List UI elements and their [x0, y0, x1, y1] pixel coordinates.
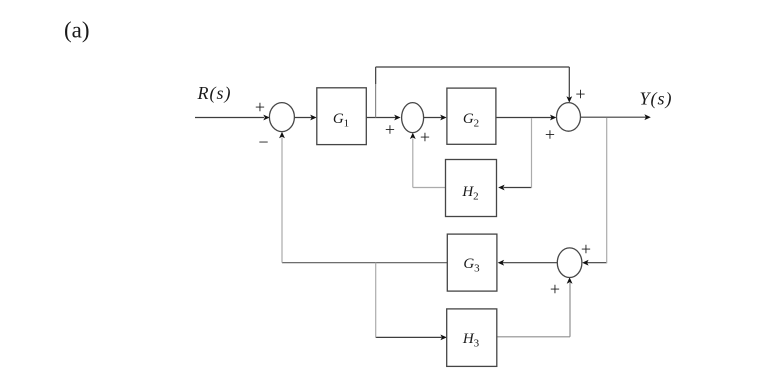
svg-text:Y(s): Y(s) — [640, 89, 673, 110]
svg-text:+: + — [545, 124, 555, 144]
svg-text:−: − — [258, 132, 268, 152]
svg-text:+: + — [385, 120, 395, 140]
svg-text:+: + — [255, 97, 265, 117]
svg-text:+: + — [420, 127, 430, 147]
svg-text:(a): (a) — [64, 18, 90, 43]
svg-text:+: + — [581, 239, 591, 259]
svg-text:+: + — [575, 84, 585, 104]
svg-text:+: + — [550, 279, 560, 299]
svg-text:R(s): R(s) — [197, 83, 232, 104]
